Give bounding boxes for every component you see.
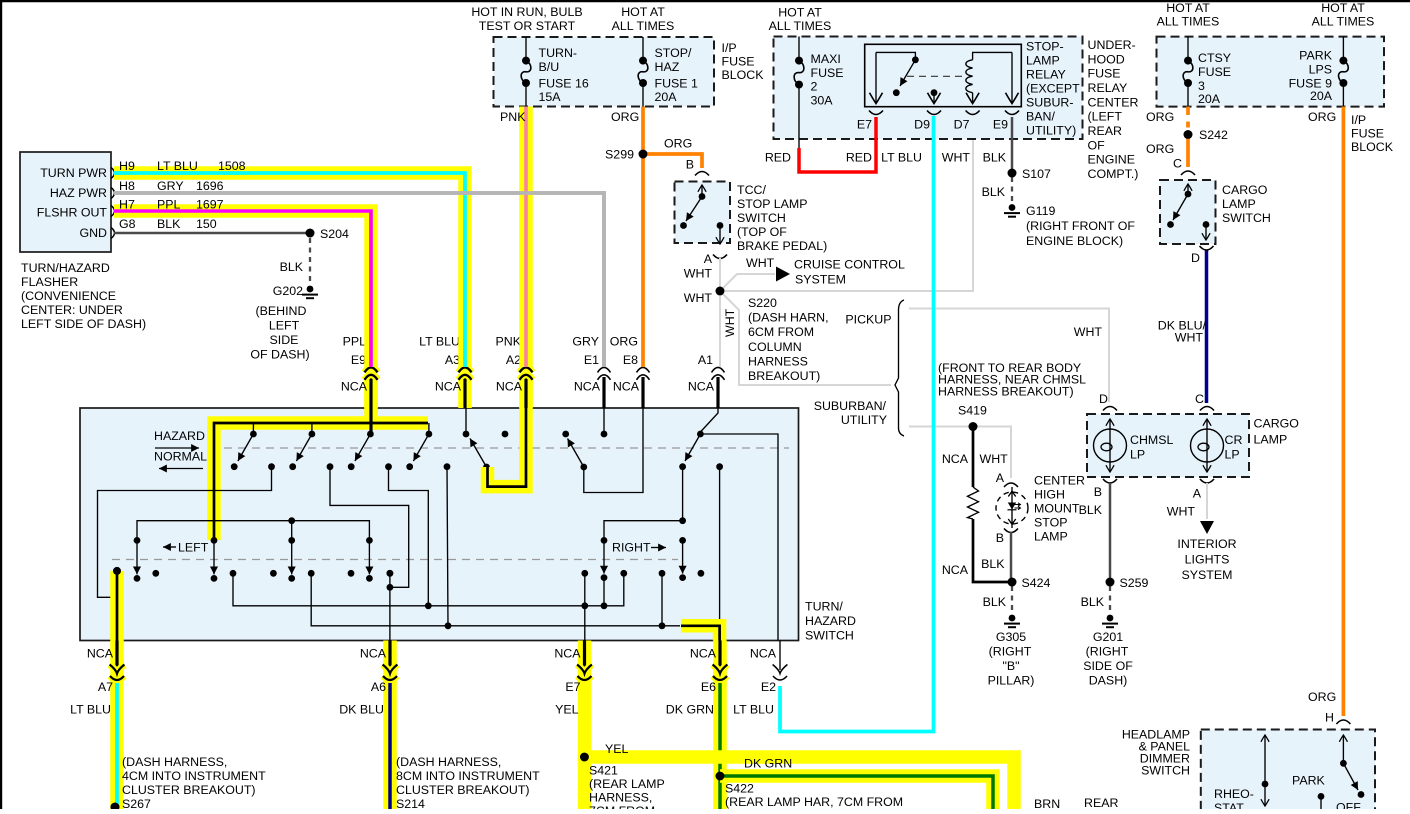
- svg-text:BLK: BLK: [157, 217, 181, 231]
- svg-text:LT BLU: LT BLU: [881, 151, 922, 165]
- wire BRN label: [1034, 797, 1060, 811]
- svg-text:HOT AT: HOT AT: [1166, 1, 1210, 15]
- fuse F1 STOP/HAZ 20A: [638, 37, 698, 107]
- svg-text:(REAR LAMP: (REAR LAMP: [589, 777, 665, 791]
- svg-text:DASH): DASH): [1089, 674, 1128, 688]
- svg-text:NCA: NCA: [942, 563, 969, 577]
- node S299 splice: [605, 148, 647, 162]
- svg-text:WHT: WHT: [684, 267, 713, 281]
- power feed header HOT AT ALL TIMES (ctsy): [1157, 1, 1220, 29]
- svg-text:LEFT: LEFT: [269, 319, 300, 333]
- node contact dot x=233: [230, 570, 237, 577]
- svg-text:ALL TIMES: ALL TIMES: [1312, 15, 1375, 29]
- svg-text:H8: H8: [119, 179, 135, 193]
- svg-text:OF: OF: [1088, 138, 1106, 152]
- node S204 splice: [306, 227, 349, 241]
- wire pin A7 interior segment (highlighted): [98, 467, 272, 641]
- svg-text:BLK: BLK: [981, 557, 1005, 571]
- svg-text:HAZARD: HAZARD: [154, 429, 205, 443]
- wire WHT suburban option (to S419): [909, 427, 1011, 479]
- svg-text:D: D: [1191, 251, 1200, 265]
- wire PPL 1697 circuit (flasher H7 to switch E9, highlighted): [114, 198, 371, 368]
- wire LT BLU (switch E2 to relay D9): [780, 116, 934, 732]
- svg-text:BRN: BRN: [1034, 797, 1060, 809]
- svg-text:NCA: NCA: [360, 647, 387, 661]
- svg-text:"B": "B": [1002, 659, 1019, 673]
- wire page top border: [0, 0, 1410, 2]
- node turn detent dashed line: [112, 559, 678, 561]
- ground G201 (right side of dash): [1083, 615, 1133, 688]
- lamp center high mount stop lamp (LED): [996, 474, 1085, 544]
- pin H7 of flasher: [111, 206, 115, 217]
- wire DK GRN branch (S422 to rear lamps): [720, 757, 993, 810]
- wire BLK dashed to G305: [983, 586, 1012, 613]
- node S422 splice: [716, 772, 903, 809]
- svg-text:CR: CR: [1225, 433, 1243, 447]
- svg-text:PARK: PARK: [1292, 774, 1326, 788]
- pin A3 connector of turn/hazard switch: [419, 335, 471, 409]
- pin D9 of relay: [914, 89, 941, 131]
- pin B connector of cargo lamp: [1094, 479, 1117, 499]
- svg-text:A: A: [996, 471, 1005, 485]
- svg-text:CLUSTER BREAKOUT): CLUSTER BREAKOUT): [396, 783, 530, 797]
- wire YEL (switch E7 to S421): [578, 683, 592, 809]
- svg-text:BAN/: BAN/: [1026, 110, 1055, 124]
- switch wiper arrow at x=291.7: [288, 537, 295, 582]
- svg-text:S267: S267: [122, 797, 151, 809]
- wire pin E6 interior segment (highlighted): [681, 626, 720, 641]
- svg-text:(RIGHT FRONT OF: (RIGHT FRONT OF: [1026, 219, 1135, 233]
- svg-text:D: D: [1099, 392, 1108, 406]
- svg-text:TURN/: TURN/: [805, 600, 843, 614]
- svg-text:TURN PWR: TURN PWR: [40, 166, 107, 180]
- svg-text:ORG: ORG: [610, 335, 638, 349]
- svg-text:A6: A6: [371, 680, 386, 694]
- svg-text:NCA: NCA: [554, 647, 581, 661]
- node contact dot x=700.9: [698, 570, 705, 577]
- ground G119 (right front of engine block): [1004, 204, 1135, 248]
- svg-text:BLK: BLK: [280, 260, 304, 274]
- wire WHT (TCC A to S220): [684, 258, 720, 291]
- pin E2 connector of turn/hazard switch: [773, 641, 788, 681]
- svg-text:15A: 15A: [539, 90, 562, 104]
- svg-text:TURN/HAZARD: TURN/HAZARD: [21, 261, 110, 275]
- svg-text:NCA: NCA: [690, 647, 717, 661]
- svg-text:(DASH HARNESS,: (DASH HARNESS,: [396, 755, 501, 769]
- node contact dot x=584.8: [581, 570, 588, 577]
- node contact dot x=662: [659, 570, 666, 577]
- svg-text:OF DASH): OF DASH): [250, 348, 309, 362]
- wire ORG (park lps fuse down right side): [1308, 107, 1343, 717]
- switch contact inside cargo lamp switch: [1167, 184, 1209, 240]
- wire BLK dashed to G201: [1081, 586, 1110, 613]
- svg-text:S299: S299: [605, 148, 634, 162]
- svg-text:CARGO: CARGO: [1254, 417, 1300, 431]
- svg-text:ORG: ORG: [1146, 110, 1174, 124]
- svg-text:PNK: PNK: [496, 335, 522, 349]
- svg-text:GRY: GRY: [572, 335, 599, 349]
- svg-text:STOP: STOP: [1034, 516, 1068, 530]
- lamp CR LP: [1191, 419, 1243, 472]
- svg-text:SIDE: SIDE: [270, 333, 299, 347]
- svg-text:STOP-: STOP-: [1026, 40, 1064, 54]
- pin H8 of flasher: [111, 188, 115, 199]
- svg-text:NCA: NCA: [574, 380, 601, 394]
- svg-text:LP: LP: [1130, 448, 1145, 462]
- wire WHT pickup option (to cargo lamp pin D): [909, 309, 1109, 403]
- svg-text:B/U: B/U: [539, 60, 560, 74]
- svg-text:4CM INTO INSTRUMENT: 4CM INTO INSTRUMENT: [122, 769, 266, 783]
- svg-text:(DASH HARNESS,: (DASH HARNESS,: [122, 755, 227, 769]
- wire GRY 1696 circuit (flasher H8 to switch E1): [114, 179, 604, 367]
- relay contact arm: [876, 52, 919, 96]
- wire GRY 1696 overlay at crossings: [114, 193, 604, 367]
- svg-text:BLOCK: BLOCK: [722, 68, 765, 82]
- svg-text:DK BLU: DK BLU: [339, 703, 384, 717]
- switch wiper arrow at x=214: [211, 537, 218, 582]
- svg-text:(DASH HARN,: (DASH HARN,: [748, 311, 829, 325]
- pin E7 connector of turn/hazard switch: [577, 641, 592, 685]
- svg-text:E1: E1: [584, 353, 599, 367]
- node S242 splice: [1184, 128, 1228, 142]
- wire WHT (S220 to rear harness brace): [720, 291, 891, 385]
- wire DK BLU (switch A6 to S214): [390, 683, 540, 811]
- svg-text:FLASHER: FLASHER: [21, 275, 78, 289]
- svg-text:HARNESS,: HARNESS,: [589, 791, 652, 805]
- svg-text:BREAKOUT): BREAKOUT): [748, 369, 820, 383]
- svg-text:E7: E7: [857, 118, 872, 132]
- svg-text:WHT: WHT: [684, 291, 713, 305]
- svg-text:TEST OR START: TEST OR START: [479, 19, 576, 33]
- pin E6 connector of turn/hazard switch: [713, 641, 728, 685]
- svg-text:S419: S419: [958, 404, 987, 418]
- svg-text:WHT: WHT: [746, 256, 775, 270]
- svg-text:LT BLU: LT BLU: [419, 335, 460, 349]
- svg-text:OFF: OFF: [1336, 801, 1361, 810]
- svg-text:A7: A7: [98, 680, 113, 694]
- turn/hazard flasher body: [20, 152, 146, 331]
- node S107 splice: [1008, 167, 1051, 181]
- wire LEFT contact bus: [137, 517, 369, 540]
- relay coil: [966, 52, 1012, 92]
- wire YEL branch (S421 to rear lamps): [585, 742, 1015, 809]
- svg-text:7CM FROM: 7CM FROM: [589, 804, 655, 809]
- svg-text:LP: LP: [1225, 448, 1240, 462]
- pin E9 connector of turn/hazard switch: [341, 335, 378, 409]
- svg-text:SWITCH: SWITCH: [1141, 764, 1190, 778]
- svg-text:LT BLU: LT BLU: [157, 159, 198, 173]
- wire BLK dashed to G119: [982, 177, 1012, 202]
- svg-text:D9: D9: [914, 118, 930, 132]
- pin D connector of cargo lamp: [1103, 407, 1117, 411]
- switch contact hazard feed unit (pin A1): [679, 408, 778, 641]
- wire DK BLU/WHT (cargo lamp switch D to cargo lamp C): [1158, 251, 1207, 404]
- pin A connector of center high mount stop lamp: [980, 452, 1019, 487]
- svg-text:20A: 20A: [1198, 92, 1221, 106]
- svg-text:NCA: NCA: [87, 647, 114, 661]
- pin E7 of relay: [857, 52, 883, 131]
- svg-text:REAR: REAR: [1084, 796, 1118, 809]
- wire LT BLU 1508 circuit (flasher H9 to switch A3, highlighted): [114, 159, 465, 367]
- svg-text:1696: 1696: [196, 179, 224, 193]
- svg-text:FUSE: FUSE: [1198, 65, 1231, 79]
- svg-text:HOT IN RUN, BULB: HOT IN RUN, BULB: [471, 5, 582, 19]
- svg-text:(REAR LAMP HAR, 7CM FROM: (REAR LAMP HAR, 7CM FROM: [725, 795, 903, 809]
- svg-text:A: A: [1193, 487, 1202, 501]
- svg-text:HIGH: HIGH: [1034, 488, 1065, 502]
- svg-text:BLK: BLK: [1079, 503, 1103, 517]
- svg-text:UTILITY: UTILITY: [841, 413, 887, 427]
- node S421 splice: [580, 753, 665, 814]
- svg-text:FUSE: FUSE: [1088, 67, 1121, 81]
- svg-text:DK GRN: DK GRN: [744, 757, 792, 771]
- wire WHT label at relay D7: [942, 151, 971, 165]
- svg-text:RED: RED: [765, 151, 791, 165]
- wire BLK (cargo lamp B to S259): [1079, 483, 1110, 582]
- wire WHT (cargo lamp A to interior lights system): [1167, 483, 1207, 519]
- svg-text:HAZARD: HAZARD: [805, 614, 856, 628]
- svg-text:NCA: NCA: [750, 647, 777, 661]
- underhood fuse relay center body: [774, 37, 1139, 182]
- svg-text:ORG: ORG: [1308, 690, 1336, 704]
- svg-text:YEL: YEL: [605, 742, 629, 756]
- svg-text:C: C: [1195, 392, 1204, 406]
- switch contact hazard unit 2: [289, 423, 333, 470]
- wire BLK (relay E9 to S107): [983, 117, 1012, 173]
- svg-text:STOP/: STOP/: [655, 46, 693, 60]
- pin A connector of cargo lamp: [1193, 479, 1214, 501]
- svg-text:B: B: [996, 531, 1004, 545]
- svg-text:ENGINE: ENGINE: [1088, 153, 1136, 167]
- node LEFT direction arrow: [163, 541, 209, 555]
- svg-text:HARNESS: HARNESS: [748, 354, 808, 368]
- svg-text:FUSE: FUSE: [722, 55, 755, 69]
- svg-text:D7: D7: [954, 118, 970, 132]
- switch wiper arrow at x=604: [601, 537, 608, 581]
- svg-text:CENTER: CENTER: [1034, 474, 1085, 488]
- svg-text:MOUNT: MOUNT: [1034, 502, 1080, 516]
- switch wiper arrow at x=137: [134, 537, 141, 582]
- svg-text:NCA: NCA: [613, 380, 640, 394]
- svg-text:1697: 1697: [196, 198, 224, 212]
- svg-text:6CM FROM: 6CM FROM: [748, 325, 814, 339]
- wire hazard feed bus (highlighted) from pin E9: [214, 376, 428, 540]
- svg-text:HOT AT: HOT AT: [621, 5, 665, 19]
- svg-text:LAMP: LAMP: [1026, 54, 1060, 68]
- svg-text:SUBUR-: SUBUR-: [1026, 96, 1074, 110]
- svg-text:HARNESS BREAKOUT): HARNESS BREAKOUT): [938, 384, 1074, 398]
- svg-text:B: B: [1094, 485, 1102, 499]
- svg-text:LAMP: LAMP: [1034, 530, 1068, 544]
- svg-text:2: 2: [811, 80, 818, 94]
- svg-text:S424: S424: [1022, 576, 1051, 590]
- svg-text:FLSHR OUT: FLSHR OUT: [37, 206, 108, 220]
- node junction dots overlay: [111, 130, 1193, 811]
- svg-text:CTSY: CTSY: [1198, 51, 1231, 65]
- svg-text:LEFT SIDE OF DASH): LEFT SIDE OF DASH): [21, 317, 146, 331]
- node REAR label: [1084, 796, 1118, 810]
- wire page left border: [0, 0, 2, 809]
- cargo lamp switch body: [1160, 180, 1271, 244]
- svg-text:TURN-: TURN-: [539, 46, 578, 60]
- svg-text:RIGHT: RIGHT: [612, 541, 651, 555]
- node contact dot x=623.8: [620, 570, 627, 577]
- switch contact hazard unit 1: [231, 423, 275, 470]
- svg-text:G119: G119: [1026, 204, 1055, 218]
- wire BLK (CHMSL B to S424): [981, 532, 1011, 582]
- wire NCA (S419 down through resistor to S424): [942, 427, 1008, 583]
- svg-text:S242: S242: [1199, 128, 1228, 142]
- svg-text:WHT: WHT: [980, 452, 1009, 466]
- lamp CHMSL LP: [1094, 419, 1174, 472]
- pin E9 of relay: [993, 52, 1019, 131]
- svg-text:3: 3: [1198, 79, 1205, 93]
- svg-text:COMPT.): COMPT.): [1088, 167, 1139, 181]
- svg-text:I/P: I/P: [722, 41, 737, 55]
- svg-text:CHMSL: CHMSL: [1130, 433, 1173, 447]
- svg-text:REAR: REAR: [1088, 124, 1122, 138]
- svg-text:LT BLU: LT BLU: [733, 703, 774, 717]
- switch contact hazard unit 4: [406, 423, 450, 470]
- pin D connector of cargo lamp switch: [1191, 246, 1213, 265]
- svg-text:NCA: NCA: [496, 380, 523, 394]
- TCC/stop lamp switch body: [675, 182, 828, 254]
- wire WHT branch to cruise control: [720, 256, 790, 291]
- resistor (CHMSL supplemental): [968, 487, 979, 519]
- svg-text:LIGHTS: LIGHTS: [1185, 553, 1230, 567]
- svg-text:A3: A3: [445, 353, 460, 367]
- svg-text:HOOD: HOOD: [1088, 52, 1125, 66]
- svg-text:PICKUP: PICKUP: [845, 313, 891, 327]
- switch contact hazard unit 3: [348, 423, 392, 470]
- svg-text:UTILITY): UTILITY): [1026, 124, 1076, 138]
- svg-text:HAZ: HAZ: [655, 60, 680, 74]
- wire LT BLU label at relay D9: [881, 151, 922, 165]
- switch contact turn-signal unit L (pins A3/A2): [463, 408, 509, 470]
- svg-text:LEFT: LEFT: [178, 541, 209, 555]
- node S419 splice: [938, 361, 1086, 431]
- svg-text:WHT: WHT: [1167, 505, 1196, 519]
- svg-text:BLK: BLK: [983, 595, 1007, 609]
- svg-text:(EXCEPT: (EXCEPT: [1026, 82, 1080, 96]
- svg-text:LPS: LPS: [1309, 63, 1332, 77]
- rheostat inside dimmer switch: [1214, 735, 1268, 814]
- svg-text:(CONVENIENCE: (CONVENIENCE: [21, 289, 116, 303]
- svg-text:S214: S214: [396, 797, 425, 809]
- svg-text:TCC/: TCC/: [737, 183, 766, 197]
- svg-text:B: B: [686, 158, 694, 172]
- svg-text:INTERIOR: INTERIOR: [1177, 537, 1236, 551]
- relay actuation dashed link: [907, 75, 963, 77]
- node HAZARD direction arrow: [154, 429, 205, 448]
- wire flasher-out feed from pin A2 (highlighted): [488, 376, 527, 487]
- svg-text:150: 150: [196, 217, 217, 231]
- svg-text:E6: E6: [701, 680, 716, 694]
- svg-text:SYSTEM: SYSTEM: [795, 273, 846, 287]
- svg-text:(RIGHT: (RIGHT: [1086, 645, 1129, 659]
- svg-text:YEL: YEL: [555, 703, 579, 717]
- svg-text:NCA: NCA: [435, 380, 462, 394]
- svg-text:CENTER: UNDER: CENTER: UNDER: [21, 303, 123, 317]
- switch contact PARK inside dimmer switch: [1292, 735, 1364, 814]
- svg-text:NCA: NCA: [942, 452, 969, 466]
- svg-text:S107: S107: [1022, 167, 1051, 181]
- svg-text:G8: G8: [119, 217, 136, 231]
- wire RIGHT contact bus: [604, 517, 686, 540]
- wire BLK dashed to G202: [280, 238, 310, 284]
- svg-text:PILLAR): PILLAR): [988, 674, 1035, 688]
- svg-text:G202: G202: [273, 284, 303, 298]
- svg-text:ALL TIMES: ALL TIMES: [612, 19, 675, 33]
- svg-text:S421: S421: [589, 764, 618, 778]
- fuse MAXI FUSE 2 30A: [794, 37, 843, 151]
- fuse F3 CTSY 20A: [1183, 37, 1231, 107]
- power feed header HOT IN RUN: [471, 5, 582, 33]
- svg-text:UNDER-: UNDER-: [1088, 38, 1136, 52]
- ground G305 (right B pillar): [988, 615, 1035, 688]
- svg-text:20A: 20A: [1310, 89, 1333, 103]
- pin A2 connector of turn/hazard switch: [496, 335, 533, 409]
- wire lower bus 2: [311, 467, 680, 629]
- svg-text:A: A: [704, 252, 713, 266]
- svg-text:NCA: NCA: [688, 380, 715, 394]
- svg-text:HAZ PWR: HAZ PWR: [50, 186, 107, 200]
- svg-text:BLOCK: BLOCK: [1351, 140, 1394, 154]
- node contact dot x=273.4: [270, 570, 277, 577]
- pin H9 of flasher: [111, 168, 115, 179]
- svg-text:20A: 20A: [655, 90, 678, 104]
- svg-text:RELAY: RELAY: [1088, 81, 1128, 95]
- svg-text:CARGO: CARGO: [1222, 183, 1268, 197]
- svg-text:ALL TIMES: ALL TIMES: [1157, 15, 1220, 29]
- svg-text:ORG: ORG: [1308, 110, 1336, 124]
- svg-text:RELAY: RELAY: [1026, 68, 1066, 82]
- svg-text:BLK: BLK: [982, 185, 1006, 199]
- pin A1 connector of turn/hazard switch: [688, 353, 725, 408]
- svg-text:H9: H9: [119, 159, 135, 173]
- svg-text:WHT: WHT: [723, 308, 737, 337]
- svg-text:HOT AT: HOT AT: [1321, 1, 1365, 15]
- pin A connector of TCC switch: [704, 252, 727, 266]
- wire DK GRN (switch E6 to S422): [713, 683, 727, 809]
- turn/hazard switch S1 body: [80, 408, 856, 642]
- fuse F16 TURN-B/U 15A: [521, 37, 589, 107]
- svg-text:E2: E2: [761, 680, 776, 694]
- node INTERIOR LIGHTS SYSTEM reference arrow: [1177, 521, 1236, 582]
- wire ORG (S242 to cargo lamp switch C): [1146, 135, 1188, 168]
- node contact dot x=351: [348, 570, 355, 577]
- svg-text:LAMP: LAMP: [1222, 197, 1256, 211]
- node contact dot x=389.9: [387, 570, 394, 577]
- svg-text:BRAKE PEDAL): BRAKE PEDAL): [737, 239, 827, 253]
- svg-text:A1: A1: [698, 353, 713, 367]
- svg-text:WHT: WHT: [1175, 331, 1204, 345]
- svg-text:RHEO-: RHEO-: [1214, 787, 1254, 801]
- wire pin A6 interior segment: [330, 467, 409, 641]
- pin A7 connector of turn/hazard switch: [110, 641, 125, 685]
- wire WHT (S220 down to switch pin A1): [720, 291, 737, 367]
- wire LT BLU (switch A7 to S267): [111, 683, 266, 811]
- svg-text:ORG: ORG: [611, 110, 639, 124]
- node contact dot x=155.8: [152, 570, 159, 577]
- svg-text:MAXI: MAXI: [811, 52, 841, 66]
- node contact dot x=311.2: [308, 570, 315, 577]
- power feed header HOT AT ALL TIMES (center): [612, 5, 675, 33]
- pin G8 of flasher: [111, 228, 115, 239]
- node S424 splice: [1008, 576, 1051, 590]
- svg-text:SWITCH: SWITCH: [1222, 211, 1271, 225]
- I/P fuse block body (center): [494, 37, 765, 107]
